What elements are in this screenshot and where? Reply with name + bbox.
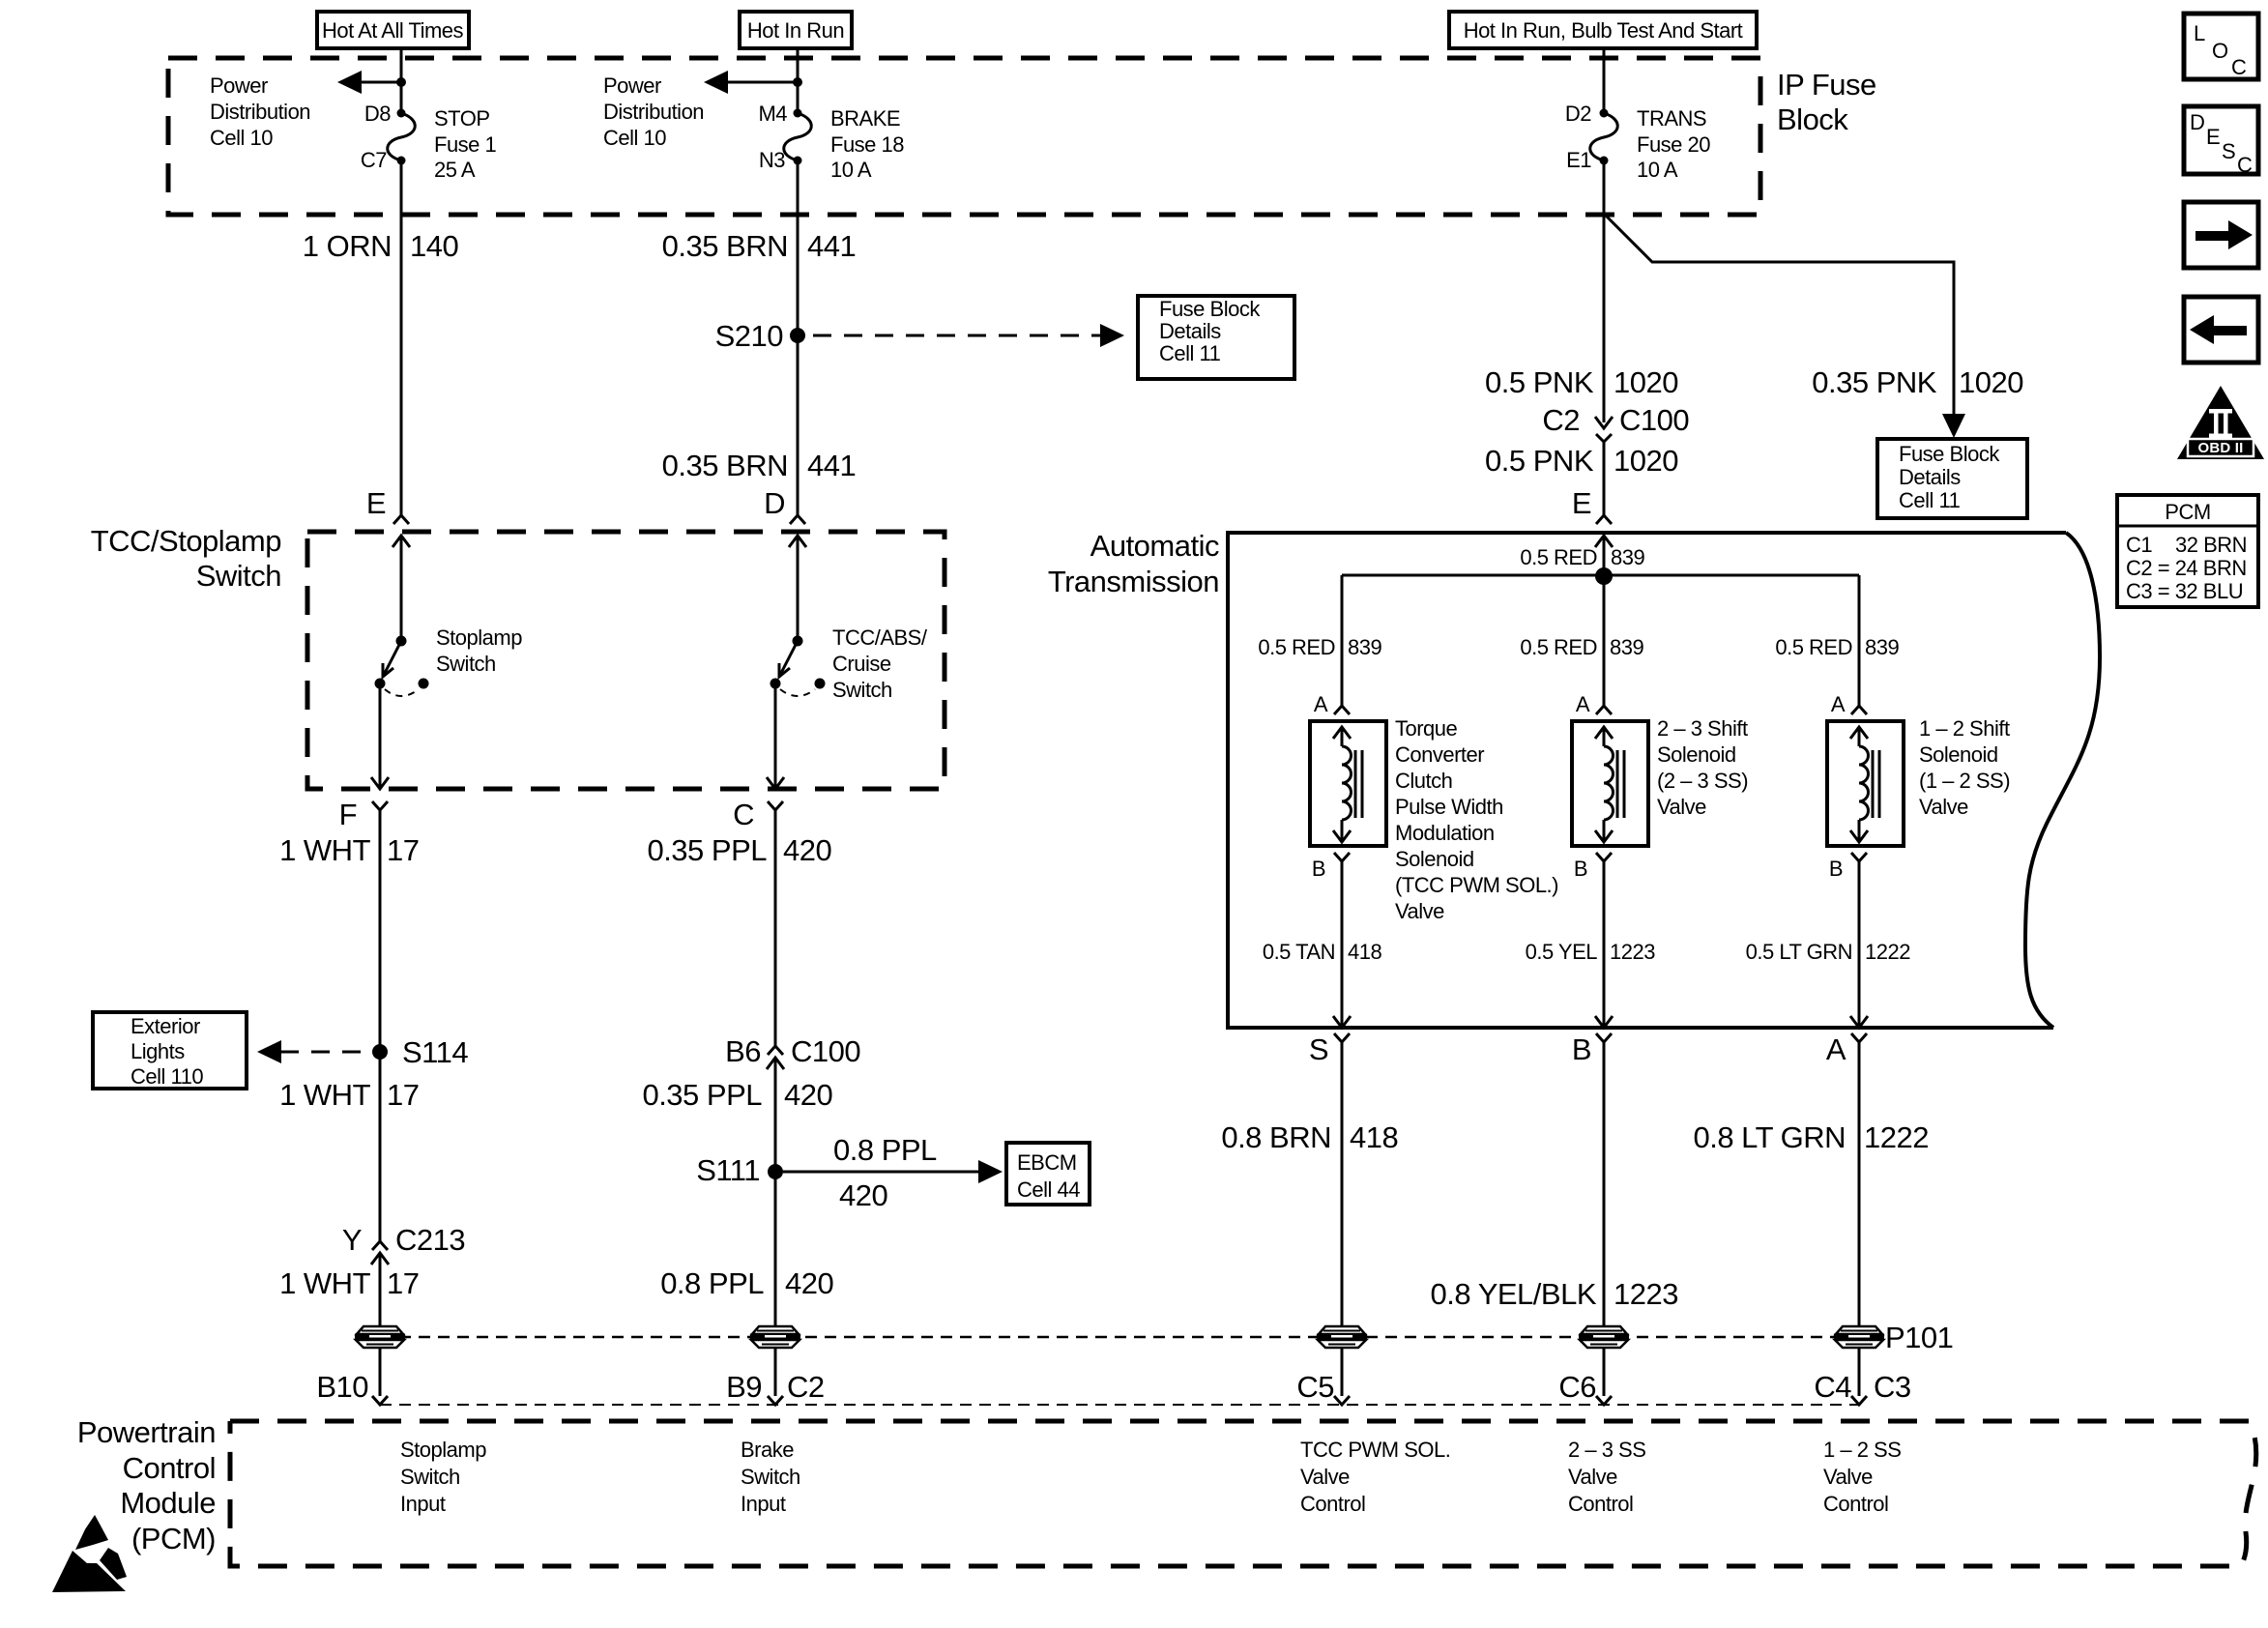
svg-text:S210: S210: [715, 319, 784, 353]
svg-text:Cell 110: Cell 110: [131, 1064, 203, 1089]
svg-text:Switch: Switch: [196, 559, 281, 593]
connector P101 grommet (wire TCC): [1317, 1326, 1367, 1348]
node: Exterior Lights Cell 110: [93, 1012, 247, 1089]
svg-text:Valve: Valve: [1919, 795, 1968, 819]
svg-text:Valve: Valve: [1395, 899, 1444, 923]
ESD sensitivity symbol: [52, 1515, 127, 1592]
Automatic Transmission boundary (torn right edge): [2025, 533, 2100, 1028]
svg-text:C213: C213: [395, 1223, 465, 1257]
pin D (TCC/Stoplamp switch): [764, 486, 806, 641]
svg-text:25 A: 25 A: [434, 158, 476, 182]
svg-text:C100: C100: [791, 1034, 860, 1068]
node: Hot In Run, Bulb Test And Start: [1449, 12, 1757, 48]
connector C213 pin Y: [342, 1223, 465, 1265]
label: 0.35 PPL 420 (below C100): [642, 1078, 832, 1112]
svg-text:B: B: [1312, 857, 1325, 881]
svg-text:Control: Control: [123, 1451, 216, 1485]
wire: P101 bulkhead dashed line: [380, 1336, 1859, 1339]
svg-text:17: 17: [387, 1266, 419, 1300]
svg-text:B10: B10: [316, 1370, 368, 1404]
wire: 1 WHT 17 (F to S114): [379, 810, 382, 1241]
label: 1 WHT 17 (below S114): [279, 1078, 419, 1112]
svg-text:839: 839: [1348, 635, 1381, 659]
solenoid L3: 1-2 shift solenoid coil: [1827, 721, 1904, 846]
svg-text:441: 441: [807, 449, 856, 482]
svg-text:0.35 PPL: 0.35 PPL: [647, 833, 767, 867]
svg-text:E: E: [2206, 125, 2220, 149]
svg-text:STOP: STOP: [434, 106, 490, 131]
label: 1 ORN 140: [303, 229, 459, 263]
label: 2-3 SS Valve Control (PCM): [1568, 1438, 1645, 1516]
svg-text:Modulation: Modulation: [1395, 821, 1495, 845]
svg-text:Valve: Valve: [1568, 1465, 1617, 1489]
wire: TCC/ABS/Cruise switch to pin C: [767, 683, 784, 789]
svg-text:140: 140: [410, 229, 458, 263]
connector P101 grommet (wire 2): [750, 1326, 800, 1348]
svg-text:S: S: [1309, 1032, 1328, 1066]
icon: OBD II triangle: [2177, 386, 2264, 459]
TCC/Stoplamp Switch label: [91, 524, 281, 593]
svg-text:Cell 44: Cell 44: [1017, 1177, 1080, 1202]
svg-text:(2 – 3 SS): (2 – 3 SS): [1657, 769, 1748, 793]
svg-text:Control: Control: [1568, 1492, 1633, 1516]
splice S111: [696, 1153, 783, 1187]
pin E (Automatic Transmission): [1572, 486, 1613, 576]
svg-text:Solenoid: Solenoid: [1919, 742, 1998, 767]
svg-text:Block: Block: [1777, 102, 1848, 136]
svg-text:Distribution: Distribution: [603, 100, 704, 124]
label: 0.5 PNK 1020: [1485, 365, 1678, 399]
wire: Hot In Run Bulb Test feed to fuse TRANS: [1603, 48, 1606, 113]
svg-text:Hot In Run: Hot In Run: [747, 18, 844, 43]
pin S (Automatic Transmission): [1309, 1032, 1350, 1066]
svg-text:17: 17: [387, 1078, 419, 1112]
wire: 1-2SS drop to PCM: [1858, 1348, 1861, 1396]
svg-text:TCC PWM SOL.: TCC PWM SOL.: [1300, 1438, 1450, 1462]
wire: 0.5 PNK 1020 (C100 to E): [1603, 442, 1606, 515]
svg-text:Cell 10: Cell 10: [210, 126, 273, 150]
svg-text:C5: C5: [1296, 1370, 1334, 1404]
svg-text:1 – 2 Shift: 1 – 2 Shift: [1919, 716, 2010, 741]
svg-text:0.5 RED: 0.5 RED: [1775, 635, 1852, 659]
svg-text:Cell 10: Cell 10: [603, 126, 666, 150]
svg-text:839: 839: [1611, 545, 1644, 569]
fuse F20: TRANS Fuse 20 10 A, pins D2/E1: [1565, 102, 1710, 182]
svg-text:Hot In Run, Bulb Test And Star: Hot In Run, Bulb Test And Start: [1464, 18, 1743, 43]
solenoid L2 label: [1657, 716, 1748, 819]
pin B9 / C2 (PCM): [726, 1370, 825, 1405]
svg-text:Clutch: Clutch: [1395, 769, 1452, 793]
svg-text:(TCC PWM SOL.): (TCC PWM SOL.): [1395, 873, 1558, 897]
svg-text:Switch: Switch: [741, 1465, 800, 1489]
svg-text:0.35 BRN: 0.35 BRN: [662, 229, 788, 263]
svg-text:C100: C100: [1619, 403, 1689, 437]
svg-text:A: A: [1826, 1032, 1846, 1066]
connector P101 grommet (wire 1): [355, 1326, 405, 1348]
solenoid L1: TCC PWM solenoid coil: [1310, 721, 1386, 846]
svg-text:Automatic: Automatic: [1090, 529, 1219, 563]
wire: TCC sol drop to PCM: [1341, 1348, 1344, 1396]
solenoid L1 label: [1395, 716, 1558, 923]
Powertrain Control Module boundary (dashed): [230, 1421, 2256, 1566]
label: 1 WHT 17 (below C213): [279, 1266, 419, 1300]
svg-text:Control: Control: [1823, 1492, 1888, 1516]
svg-text:0.5 RED: 0.5 RED: [1520, 635, 1597, 659]
label: 0.35 PPL 420: [647, 833, 831, 867]
svg-text:0.5 LT GRN: 0.5 LT GRN: [1746, 940, 1852, 964]
pin A (solenoid 3): [1831, 692, 1867, 716]
svg-text:L: L: [2194, 21, 2205, 45]
node: Fuse Block Details Cell 11 (right): [1877, 439, 2027, 518]
svg-text:1020: 1020: [1614, 365, 1678, 399]
svg-text:Lights: Lights: [131, 1039, 185, 1063]
label: 0.5 RED 839 (drop 2): [1520, 635, 1643, 659]
svg-text:Details: Details: [1159, 319, 1221, 343]
wire: dashed arrow to Exterior Lights: [257, 1040, 365, 1063]
wire: 0.5 RED rail: [1342, 574, 1859, 577]
svg-text:1222: 1222: [1865, 940, 1910, 964]
svg-text:10 A: 10 A: [1637, 158, 1678, 182]
svg-text:E: E: [1572, 486, 1591, 520]
label: Stoplamp Switch Input (PCM): [400, 1438, 486, 1516]
label: 0.5 RED 839 (top): [1520, 545, 1644, 569]
pin B (solenoid 3): [1829, 853, 1867, 881]
svg-text:1 WHT: 1 WHT: [279, 1266, 371, 1300]
svg-text:A: A: [1314, 692, 1328, 716]
splice S210: [715, 319, 805, 353]
svg-text:Stoplamp: Stoplamp: [436, 625, 522, 650]
wire: 0.5 RED drop 2: [1603, 576, 1606, 706]
svg-text:2 – 3 Shift: 2 – 3 Shift: [1657, 716, 1748, 741]
svg-text:EBCM: EBCM: [1017, 1150, 1077, 1175]
svg-text:N3: N3: [759, 148, 785, 172]
wire: 0.5 TAN 418: [1263, 861, 1382, 1028]
svg-text:IP Fuse: IP Fuse: [1777, 68, 1876, 102]
icon: DESC reference box: [2184, 106, 2258, 177]
wire: 1 WHT 17 (C213 to P101): [379, 1253, 382, 1326]
connector C100 pin C2: [1542, 403, 1689, 442]
svg-text:Fuse 1: Fuse 1: [434, 132, 497, 157]
svg-text:2 – 3 SS: 2 – 3 SS: [1568, 1438, 1645, 1462]
pin C (TCC/Stoplamp switch): [733, 798, 783, 831]
svg-text:Powertrain: Powertrain: [77, 1415, 216, 1449]
svg-text:S114: S114: [402, 1035, 468, 1069]
svg-text:1 WHT: 1 WHT: [279, 1078, 371, 1112]
pin C6 (PCM): [1558, 1370, 1612, 1405]
wire: stoplamp switch to pin F: [371, 683, 389, 789]
svg-text:TRANS: TRANS: [1637, 106, 1706, 131]
pin C4 / C3 (PCM): [1814, 1370, 1910, 1405]
svg-text:0.5 RED: 0.5 RED: [1258, 635, 1335, 659]
svg-text:BRAKE: BRAKE: [830, 106, 900, 131]
label: 1-2 SS Valve Control (PCM): [1823, 1438, 1901, 1516]
pin A (Automatic Transmission): [1826, 1032, 1867, 1066]
pin A (solenoid 2): [1576, 692, 1612, 716]
wire: 0.8 BRN 418 (S to P101): [1221, 1042, 1398, 1326]
svg-text:Cruise: Cruise: [832, 652, 891, 676]
wire: 0.35 PPL 420 (C to C100): [774, 810, 777, 1046]
wire: PCM header dashed tie line: [380, 1404, 1859, 1406]
switch SW1: Stoplamp Switch: [375, 625, 523, 696]
svg-text:1 WHT: 1 WHT: [279, 833, 371, 867]
wire: 1 ORN 140 (fuse C7 to switch): [400, 160, 403, 515]
svg-text:10 A: 10 A: [830, 158, 872, 182]
wire: Hot In Run feed to fuse BRAKE: [797, 48, 800, 113]
node: Hot At All Times: [317, 12, 469, 48]
svg-text:0.8 BRN: 0.8 BRN: [1221, 1120, 1331, 1154]
wire: 0.35 PPL 420 (C100 to S111): [774, 1058, 777, 1326]
svg-text:0.8 PPL: 0.8 PPL: [660, 1266, 764, 1300]
connector C100 pin B6: [725, 1034, 860, 1069]
svg-text:D: D: [764, 486, 785, 520]
wire: branch to 0.35 PNK 1020: [1604, 214, 1954, 416]
svg-text:0.35 PPL: 0.35 PPL: [642, 1078, 762, 1112]
svg-text:420: 420: [783, 833, 831, 867]
wire: Hot At All Times feed to fuse STOP: [400, 48, 403, 113]
node: EBCM Cell 44: [1006, 1143, 1090, 1205]
label: 1 WHT 17: [279, 833, 419, 867]
svg-text:1222: 1222: [1864, 1120, 1929, 1154]
pin B (solenoid 1): [1312, 853, 1350, 881]
svg-text:Distribution: Distribution: [210, 100, 310, 124]
label: 0.8 PPL 420 (below S111): [660, 1266, 833, 1300]
svg-text:Hot At All Times: Hot At All Times: [322, 18, 464, 43]
svg-text:0.8 LT GRN: 0.8 LT GRN: [1693, 1120, 1846, 1154]
IP Fuse Block label: [1777, 68, 1876, 136]
svg-text:839: 839: [1865, 635, 1899, 659]
wire: stoplamp input drop to PCM: [379, 1348, 382, 1396]
fuse F18: BRAKE Fuse 18 10 A, pins M4/N3: [758, 102, 904, 182]
svg-text:PCM: PCM: [2165, 500, 2210, 524]
svg-text:839: 839: [1610, 635, 1643, 659]
svg-text:C3: C3: [1874, 1370, 1911, 1404]
svg-text:418: 418: [1348, 940, 1381, 964]
splice S114: [372, 1035, 468, 1069]
wire: 0.8 PPL 420 arrow to EBCM: [783, 1133, 1003, 1212]
svg-text:Torque: Torque: [1395, 716, 1458, 741]
label: Brake Switch Input (PCM): [741, 1438, 800, 1516]
svg-text:1223: 1223: [1610, 940, 1655, 964]
svg-text:418: 418: [1350, 1120, 1398, 1154]
svg-text:C6: C6: [1558, 1370, 1596, 1404]
label: 0.5 RED 839 (drop 1): [1258, 635, 1381, 659]
label: 0.35 PNK 1020: [1812, 365, 2023, 399]
svg-text:420: 420: [785, 1266, 833, 1300]
svg-text:Pulse Width: Pulse Width: [1395, 795, 1503, 819]
label: 0.35 BRN 441: [662, 229, 857, 263]
icon: arrow right box: [2184, 202, 2258, 268]
svg-text:0.8 YEL/BLK: 0.8 YEL/BLK: [1431, 1277, 1597, 1311]
svg-text:1 ORN: 1 ORN: [303, 229, 392, 263]
svg-text:C2: C2: [787, 1370, 825, 1404]
svg-text:Solenoid: Solenoid: [1395, 847, 1474, 871]
wire: 0.8 YEL/BLK 1223 (B to P101): [1431, 1042, 1678, 1326]
svg-text:D2: D2: [1565, 102, 1591, 126]
svg-text:Cell 11: Cell 11: [1899, 488, 1961, 512]
Powertrain Control Module label: [77, 1415, 216, 1555]
svg-text:Brake: Brake: [741, 1438, 794, 1462]
svg-text:F: F: [339, 798, 357, 831]
splice: junction on 0.5 RED rail: [1595, 567, 1613, 585]
svg-text:C: C: [733, 798, 754, 831]
svg-text:C4: C4: [1814, 1370, 1851, 1404]
svg-text:0.8 PPL: 0.8 PPL: [833, 1133, 937, 1167]
wire: 2-3SS drop to PCM: [1603, 1348, 1606, 1396]
switch SW2: TCC/ABS/Cruise Switch: [771, 625, 928, 702]
svg-text:C3 = 32 BLU: C3 = 32 BLU: [2126, 579, 2243, 603]
svg-text:Valve: Valve: [1300, 1465, 1350, 1489]
svg-text:E1: E1: [1566, 148, 1591, 172]
connector P101 grommet (wire 2-3SS): [1579, 1326, 1629, 1348]
wire: arrow into Fuse Block Details (right): [1942, 414, 1965, 438]
pin F (TCC/Stoplamp switch): [339, 798, 388, 831]
svg-text:0.5 PNK: 0.5 PNK: [1485, 444, 1594, 478]
svg-text:TCC/ABS/: TCC/ABS/: [832, 625, 928, 650]
svg-text:1 – 2 SS: 1 – 2 SS: [1823, 1438, 1901, 1462]
svg-text:C1: C1: [2126, 533, 2152, 557]
svg-text:Fuse 20: Fuse 20: [1637, 132, 1710, 157]
svg-text:Switch: Switch: [400, 1465, 460, 1489]
label: 0.5 PNK 1020 (below C100): [1485, 444, 1678, 478]
wire: 0.5 RED drop 3: [1858, 575, 1861, 706]
node: Power Distribution Cell 10 (left): [210, 73, 310, 150]
svg-text:C7: C7: [361, 148, 387, 172]
pin B (solenoid 2): [1574, 853, 1612, 881]
Automatic Transmission boundary: [1228, 533, 2066, 1028]
svg-text:O: O: [2212, 39, 2228, 63]
svg-text:B: B: [1829, 857, 1843, 881]
node: Fuse Block Details Cell 11 (mid): [1138, 296, 1294, 379]
svg-text:Fuse Block: Fuse Block: [1159, 297, 1261, 321]
svg-text:Module: Module: [120, 1486, 216, 1520]
svg-text:P101: P101: [1885, 1321, 1953, 1354]
svg-text:TCC/Stoplamp: TCC/Stoplamp: [91, 524, 281, 558]
svg-text:C: C: [2237, 153, 2253, 177]
svg-text:Fuse 18: Fuse 18: [830, 132, 904, 157]
svg-text:Valve: Valve: [1823, 1465, 1873, 1489]
svg-text:OBD II: OBD II: [2197, 440, 2243, 456]
table: PCM connector legend: [2117, 495, 2258, 607]
svg-text:B: B: [1572, 1032, 1591, 1066]
svg-text:E: E: [366, 486, 386, 520]
svg-text:Solenoid: Solenoid: [1657, 742, 1736, 767]
pin B10 (PCM): [316, 1370, 388, 1405]
pin C5 (PCM): [1296, 1370, 1350, 1405]
svg-text:B: B: [1574, 857, 1587, 881]
svg-text:B6: B6: [725, 1034, 761, 1068]
svg-text:0.35 PNK: 0.35 PNK: [1812, 365, 1937, 399]
svg-text:441: 441: [807, 229, 856, 263]
svg-text:1223: 1223: [1614, 1277, 1678, 1311]
svg-text:Power: Power: [210, 73, 268, 98]
IP Fuse Block boundary (dashed): [168, 58, 1760, 215]
svg-text:0.35 BRN: 0.35 BRN: [662, 449, 788, 482]
svg-text:Input: Input: [741, 1492, 786, 1516]
svg-text:0.5 TAN: 0.5 TAN: [1263, 940, 1335, 964]
svg-text:Transmission: Transmission: [1048, 565, 1219, 598]
svg-text:Switch: Switch: [832, 678, 892, 702]
svg-text:Switch: Switch: [436, 652, 496, 676]
svg-text:420: 420: [839, 1178, 887, 1212]
wire: 0.8 LT GRN 1222 (A to P101): [1693, 1042, 1929, 1326]
svg-text:Control: Control: [1300, 1492, 1365, 1516]
svg-text:32 BRN: 32 BRN: [2175, 533, 2247, 557]
svg-text:D: D: [2190, 110, 2204, 134]
svg-text:0.5 YEL: 0.5 YEL: [1526, 940, 1598, 964]
label: TCC PWM SOL. Valve Control (PCM): [1300, 1438, 1450, 1516]
wire: 0.5 LT GRN 1222: [1746, 861, 1911, 1028]
svg-text:S111: S111: [696, 1153, 760, 1187]
svg-text:M4: M4: [758, 102, 787, 126]
wire: arrow to Power Distribution (left): [337, 71, 406, 94]
svg-text:Converter: Converter: [1395, 742, 1484, 767]
svg-text:Exterior: Exterior: [131, 1014, 200, 1038]
svg-text:Stoplamp: Stoplamp: [400, 1438, 486, 1462]
node: Power Distribution Cell 10 (mid): [603, 73, 704, 150]
svg-text:Details: Details: [1899, 465, 1961, 489]
svg-text:(PCM): (PCM): [131, 1522, 216, 1555]
solenoid L3 label: [1919, 716, 2010, 819]
svg-text:Cell 11: Cell 11: [1159, 341, 1221, 365]
svg-text:Valve: Valve: [1657, 795, 1706, 819]
svg-text:Fuse Block: Fuse Block: [1899, 442, 2000, 466]
svg-text:D8: D8: [364, 102, 391, 126]
connector P101 grommet (wire 1-2SS): [1834, 1321, 1953, 1354]
pin A (solenoid 1): [1314, 692, 1350, 716]
icon: LOC reference box: [2184, 14, 2258, 79]
svg-text:1020: 1020: [1959, 365, 2023, 399]
wire: 0.35 BRN 441 (fuse N3 to S210): [797, 160, 800, 515]
pin E (TCC/Stoplamp switch): [366, 486, 410, 641]
svg-text:1020: 1020: [1614, 444, 1678, 478]
svg-text:420: 420: [784, 1078, 832, 1112]
pin B (Automatic Transmission): [1572, 1032, 1612, 1066]
svg-text:A: A: [1831, 692, 1846, 716]
wire: arrow to Power Distribution (mid): [704, 71, 802, 94]
svg-text:C: C: [2231, 55, 2247, 79]
svg-text:17: 17: [387, 833, 419, 867]
node: Hot In Run: [740, 12, 852, 48]
icon: arrow left box: [2184, 297, 2258, 363]
svg-text:C2 = 24 BRN: C2 = 24 BRN: [2126, 556, 2247, 580]
Automatic Transmission label: [1048, 529, 1219, 598]
svg-text:C2: C2: [1542, 403, 1580, 437]
svg-text:Input: Input: [400, 1492, 446, 1516]
label: 0.5 RED 839 (drop 3): [1775, 635, 1899, 659]
fuse F1: STOP Fuse 1 25 A, pins D8/C7: [361, 102, 497, 182]
wire: 0.5 YEL 1223: [1526, 861, 1656, 1028]
wire: 0.5 RED drop 1: [1341, 575, 1344, 706]
svg-text:Y: Y: [342, 1223, 362, 1257]
solenoid L2: 2-3 shift solenoid coil: [1572, 721, 1648, 846]
svg-text:A: A: [1576, 692, 1590, 716]
svg-text:0.5 PNK: 0.5 PNK: [1485, 365, 1594, 399]
wire: brake input drop to PCM: [774, 1348, 777, 1396]
wire: 0.5 PNK 1020 (fuse E1 down): [1603, 160, 1606, 422]
svg-text:0.5 RED: 0.5 RED: [1520, 545, 1597, 569]
svg-text:S: S: [2222, 139, 2235, 163]
label: 0.35 BRN 441 (below S210): [662, 449, 857, 482]
wire: dashed arrow to Fuse Block Details: [813, 324, 1124, 347]
svg-text:(1 – 2 SS): (1 – 2 SS): [1919, 769, 2010, 793]
svg-text:B9: B9: [726, 1370, 762, 1404]
TCC/Stoplamp Switch boundary (dashed): [307, 532, 945, 789]
svg-text:Power: Power: [603, 73, 661, 98]
